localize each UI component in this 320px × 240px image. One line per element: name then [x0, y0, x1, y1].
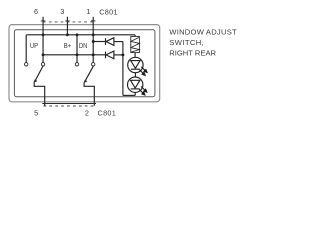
- svg-text:RIGHT REAR: RIGHT REAR: [169, 49, 216, 58]
- wire pin 1 vertical: [92, 17, 94, 63]
- contact circle c3: [75, 63, 78, 66]
- LED 1 circle: [128, 57, 143, 72]
- outer enclosure box: [9, 25, 160, 102]
- LED 1 cathode bar: [131, 68, 140, 70]
- svg-text:SWITCH,: SWITCH,: [169, 38, 204, 47]
- junction pin1/bottom bus: [92, 53, 95, 56]
- svg-text:1: 1: [86, 7, 90, 16]
- svg-text:C801: C801: [98, 108, 117, 117]
- diode D1 wire in: [93, 41, 105, 43]
- wire bottom bus: [43, 54, 105, 56]
- diode D1 cathode bar: [105, 38, 107, 45]
- resistor body box: [131, 36, 140, 52]
- junction pin6/bottom bus: [42, 53, 45, 56]
- inner enclosure box: [14, 30, 155, 97]
- svg-text:5: 5: [34, 108, 38, 117]
- svg-text:3: 3: [60, 7, 64, 16]
- wire LED2 bottom: [134, 92, 136, 95]
- pin 1 tick: [91, 20, 96, 22]
- junction mid drop/top bus: [76, 33, 79, 36]
- svg-text:6: 6: [34, 7, 38, 16]
- svg-text:UP: UP: [30, 42, 39, 50]
- pin 3 tick: [65, 20, 70, 22]
- switch 1 lever: [36, 66, 43, 80]
- connector C801 bottom solid edge: [42, 103, 96, 105]
- contact circle c2: [41, 63, 44, 66]
- wire UP contact drop: [25, 35, 27, 63]
- LED 2 cathode bar: [131, 88, 140, 90]
- switch 2 lever: [86, 66, 94, 80]
- switch 2 lever arrowhead: [84, 80, 88, 84]
- svg-text:2: 2: [85, 108, 89, 117]
- wire bus to resistor: [134, 35, 136, 37]
- svg-text:B+: B+: [64, 42, 71, 50]
- resistor wire out: [134, 53, 136, 58]
- wire LED return bottom: [123, 94, 135, 96]
- contact circle c4: [92, 63, 95, 66]
- diode D1 triangle: [106, 38, 114, 46]
- switch 1 lever arrowhead: [34, 79, 38, 83]
- switch 2 pole wire: [84, 83, 94, 106]
- resistor zigzag: [131, 37, 140, 52]
- junction pin1/top bus: [92, 33, 95, 36]
- junction pin3/top bus: [66, 33, 69, 36]
- wire mid drop: [76, 35, 78, 63]
- junction diode return: [121, 53, 124, 56]
- wire top bus: [26, 34, 135, 36]
- svg-text:WINDOW ADJUST: WINDOW ADJUST: [169, 27, 237, 36]
- contact circle c1: [25, 63, 28, 66]
- LED 1 emission arrows: [139, 67, 147, 76]
- connector C801 bottom dashed line: [44, 105, 96, 107]
- wire diode junction vertical: [122, 42, 124, 96]
- diode D2 triangle: [106, 51, 114, 59]
- junction mid drop/bottom bus: [76, 53, 79, 56]
- svg-text:C801: C801: [99, 7, 118, 16]
- svg-text:DN: DN: [79, 42, 88, 50]
- connector C801 top dashed line: [43, 21, 93, 23]
- LED 1 triangle: [131, 61, 140, 69]
- LED 2 emission arrows: [139, 87, 147, 96]
- switch 1 pole wire: [34, 82, 45, 106]
- wire pin 3 vertical: [66, 17, 68, 35]
- diode D2 wire out: [114, 54, 123, 56]
- diode D1 wire out: [114, 41, 123, 43]
- diode D2 cathode bar: [105, 52, 107, 59]
- wire pin 6 vertical: [42, 17, 44, 63]
- pin 6 tick: [41, 20, 46, 22]
- junction diode D1 branch: [92, 40, 95, 43]
- wire LED1 to LED2: [134, 73, 136, 77]
- LED 2 triangle: [131, 80, 140, 88]
- LED 2 circle: [128, 77, 143, 92]
- junction pin6/top bus: [42, 33, 45, 36]
